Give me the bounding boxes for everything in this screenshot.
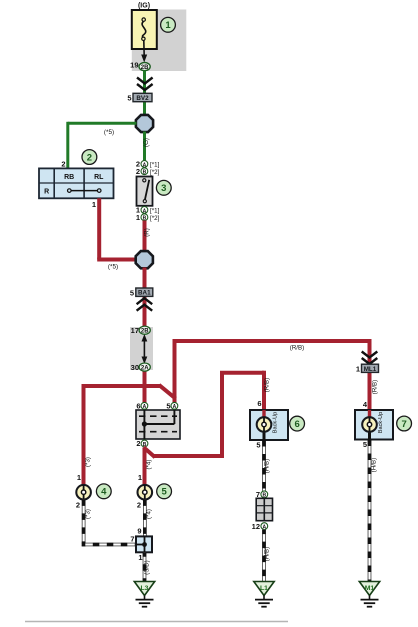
lamp bulb 5 <box>138 485 153 500</box>
wire green branch to relay (left) <box>68 122 137 169</box>
shaded block behind fuse (component 1 background) <box>132 10 187 72</box>
svg-text:A: A <box>173 404 177 410</box>
ground junction block <box>136 536 152 552</box>
svg-text:(R): (R) <box>143 228 150 237</box>
svg-text:5: 5 <box>130 288 134 297</box>
splice octagon I4 <box>136 115 153 132</box>
svg-text:1: 1 <box>77 473 81 482</box>
svg-text:R: R <box>44 189 49 196</box>
svg-text:(IG): (IG) <box>138 3 150 10</box>
connector code ML1 <box>362 364 379 373</box>
wire red main vertical (I5 down to junction block J4) <box>143 268 147 412</box>
svg-text:[*2]: [*2] <box>150 215 160 222</box>
harness pass-through box (2B/2A) <box>130 327 153 370</box>
svg-text:1: 1 <box>136 213 140 222</box>
relay contact <box>68 189 101 193</box>
svg-text:9: 9 <box>137 526 141 535</box>
svg-text:M1: M1 <box>365 585 375 592</box>
svg-text:Back-Up: Back-Up <box>273 412 279 433</box>
svg-text:2: 2 <box>87 152 92 163</box>
svg-text:2: 2 <box>136 167 140 176</box>
svg-text:BV2: BV2 <box>136 95 149 102</box>
svg-text:1: 1 <box>138 473 142 482</box>
wire striped lamp6 to connector <box>262 440 266 491</box>
svg-text:17: 17 <box>131 326 139 335</box>
pin 1(A) [*1] <box>136 206 160 215</box>
wire red 2B down to lamp 5 <box>143 447 147 485</box>
svg-text:4: 4 <box>101 487 107 498</box>
svg-text:L1: L1 <box>260 585 268 592</box>
svg-text:L3: L3 <box>141 585 149 592</box>
fuse F1 box <box>132 10 157 49</box>
svg-text:ML1: ML1 <box>364 366 377 373</box>
wire striped connector to ground L1 <box>262 530 266 582</box>
splice octagon I5 <box>136 251 153 268</box>
lamp bulb 4 <box>76 485 91 500</box>
svg-text:(*5): (*5) <box>104 129 114 136</box>
svg-text:Back-Up: Back-Up <box>378 412 384 433</box>
svg-text:(G): (G) <box>143 138 150 147</box>
svg-text:BA1: BA1 <box>138 290 151 297</box>
svg-text:1: 1 <box>165 20 171 31</box>
wire striped lamp4 to ground block <box>82 499 137 546</box>
pin 1(B) [*2] <box>136 213 160 222</box>
node main junction <box>142 383 147 388</box>
callout circle 5 <box>157 484 172 499</box>
svg-text:5: 5 <box>363 440 367 449</box>
back-up light RH (component 7) <box>355 410 393 440</box>
svg-text:30: 30 <box>131 363 139 372</box>
svg-text:[*2]: [*2] <box>150 169 160 176</box>
connector code BV2 <box>133 93 152 102</box>
svg-text:(R/B): (R/B) <box>371 380 378 394</box>
connector oval 2B <box>139 326 150 335</box>
svg-text:2B: 2B <box>141 65 149 71</box>
relay block (component 2) <box>39 168 114 198</box>
svg-text:2: 2 <box>136 439 140 448</box>
pin 5(A) <box>166 402 177 411</box>
svg-text:(H/B): (H/B) <box>264 459 271 473</box>
svg-text:5: 5 <box>127 94 131 103</box>
fuse element symbol <box>142 18 146 41</box>
svg-text:1: 1 <box>92 200 96 209</box>
connector code BA1 <box>136 288 153 297</box>
svg-text:RL: RL <box>94 174 104 181</box>
back-up light switch (component 3) <box>137 177 153 206</box>
wire red switch to splice I5 <box>143 221 147 254</box>
svg-text:A: A <box>143 404 147 410</box>
wire from fuse to connector 2B <box>141 41 147 63</box>
callout circle 1 <box>161 17 176 32</box>
svg-text:2: 2 <box>61 160 65 169</box>
svg-text:6: 6 <box>136 402 140 411</box>
svg-text:6: 6 <box>294 419 299 430</box>
pin 12(A) <box>252 522 268 531</box>
ground L3 <box>134 582 154 607</box>
svg-text:2A: 2A <box>141 366 149 372</box>
pin 2(B) <box>136 439 148 448</box>
svg-text:19: 19 <box>130 60 138 69</box>
wire red relay to splice I5 <box>97 198 137 259</box>
wire red branch to lamp 6 <box>144 371 264 458</box>
wire red branch junction to pin 5A and ML1 feed <box>145 339 370 411</box>
svg-text:(R/B): (R/B) <box>264 378 271 392</box>
svg-text:[*1]: [*1] <box>150 162 160 169</box>
ground L1 <box>254 582 274 607</box>
svg-text:1: 1 <box>356 365 360 374</box>
svg-text:(S/D): (S/D) <box>144 560 151 574</box>
pin 6(A) <box>136 402 147 411</box>
svg-text:RB: RB <box>64 174 74 181</box>
svg-text:2: 2 <box>137 500 141 509</box>
svg-text:5: 5 <box>166 402 170 411</box>
page rule at bottom <box>25 621 288 623</box>
connector chevrons at BV2 <box>137 78 153 91</box>
callout circle 2 <box>82 150 97 165</box>
svg-text:7: 7 <box>130 535 134 544</box>
pass-through arrow <box>142 334 148 364</box>
svg-text:5: 5 <box>256 440 260 449</box>
connector oval 2B <box>139 63 150 72</box>
svg-text:(*3): (*3) <box>85 457 92 467</box>
svg-text:2B: 2B <box>141 329 149 335</box>
callout circle 4 <box>96 484 111 499</box>
pin 2(A) [*1] <box>136 160 160 169</box>
pin 7(B) <box>256 490 268 499</box>
wire green splice I4 to switch <box>143 132 146 163</box>
ground M1 <box>359 582 379 607</box>
svg-text:7: 7 <box>401 419 406 430</box>
wire striped lamp5 to ground block <box>143 499 147 537</box>
connector chevrons at BA1 <box>137 298 153 311</box>
wire green main (2B to splice I4) <box>143 71 146 116</box>
wire striped lamp7 to ground M1 <box>368 440 372 582</box>
svg-text:(*3): (*3) <box>85 509 92 519</box>
back-up light LH (component 6) <box>250 410 288 440</box>
svg-text:6: 6 <box>257 399 261 408</box>
svg-text:2: 2 <box>76 500 80 509</box>
svg-text:5: 5 <box>161 487 167 498</box>
connector chevrons at ML1 <box>362 352 378 365</box>
callout circle 6 <box>290 416 305 431</box>
svg-text:[*1]: [*1] <box>150 208 160 215</box>
connector oval 2A <box>139 363 150 372</box>
svg-text:1: 1 <box>138 553 142 562</box>
svg-text:12: 12 <box>252 522 260 531</box>
callout circle 7 <box>397 416 412 431</box>
svg-text:(*5): (*5) <box>108 263 118 270</box>
callout circle 3 <box>156 180 171 195</box>
wire red branch to lamp 4 (left) <box>84 384 147 486</box>
wire striped block to ground L3 <box>143 552 147 581</box>
pin 2(B) [*2] <box>136 167 160 176</box>
junction block J4 <box>136 410 180 439</box>
svg-text:(H/B): (H/B) <box>264 547 271 561</box>
svg-text:B: B <box>143 170 147 176</box>
svg-text:(H/B): (H/B) <box>370 458 377 472</box>
svg-text:(R/B): (R/B) <box>290 344 304 351</box>
svg-text:(*4): (*4) <box>146 509 153 519</box>
svg-text:3: 3 <box>161 183 166 194</box>
pass-through connector block <box>256 498 272 520</box>
svg-text:(*4): (*4) <box>146 460 153 470</box>
